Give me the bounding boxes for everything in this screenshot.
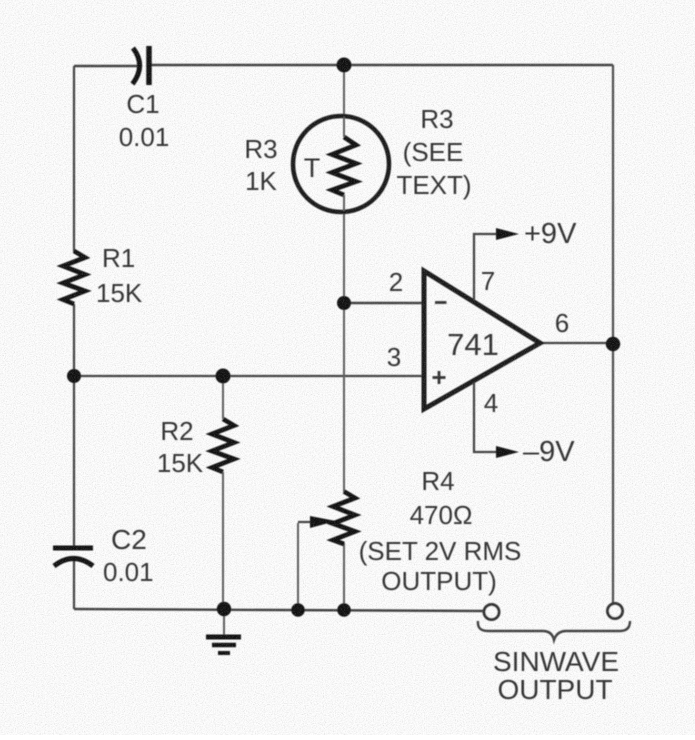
output terminal 1	[484, 605, 499, 620]
capacitor C1	[133, 46, 150, 85]
wire: output from op-amp apex to right rail	[540, 342, 613, 344]
wire: pin 4 to -9V supply	[474, 382, 497, 452]
wire: inverting input stub (pin 2)	[344, 302, 423, 304]
potentiometer R4	[333, 492, 355, 545]
wire: top rail right segment (C1 to right corner)	[150, 64, 613, 66]
wire: thermistor bottom down to R4	[343, 211, 345, 492]
wire: R4 wiper drop to bottom rail	[297, 523, 299, 610]
wire: pin 7 to +9V supply	[474, 234, 497, 300]
node: R4 bottom junction	[337, 603, 351, 617]
wire: right vertical rail	[612, 65, 614, 604]
plus sign at pin 3	[433, 376, 446, 379]
wire: left vertical rail middle (R1 to C2)	[73, 304, 75, 546]
ground	[206, 609, 241, 653]
wire: left vertical rail lower (C2 to bottom corner)	[73, 560, 75, 609]
node: top rail / thermistor junction	[337, 58, 352, 73]
brace under output terminals	[478, 621, 630, 640]
wire: left vertical rail upper (top to R1)	[73, 66, 75, 252]
-9V supply arrow	[496, 446, 519, 458]
op-amp U1 741	[424, 271, 540, 409]
node: ground junction	[217, 602, 231, 616]
node: left rail / mid wire junction	[67, 369, 81, 383]
+9V supply arrow	[496, 228, 519, 240]
wire: R4 bottom to bottom rail	[343, 543, 345, 610]
wire: thermistor branch from top rail	[343, 65, 345, 117]
capacitor C2	[53, 548, 93, 566]
wire: R2 bottom stub	[222, 472, 224, 610]
wiper arrow of R4	[298, 521, 312, 523]
minus sign at pin 2	[435, 301, 447, 304]
wire: mid horizontal (non-inverting input, pin 3)	[74, 375, 423, 377]
thermistor R3	[293, 116, 389, 212]
node: inverting input junction	[337, 296, 351, 310]
output terminal 2	[608, 604, 623, 619]
node: output junction	[606, 337, 620, 351]
resistor R2	[212, 419, 234, 472]
resistor R1	[63, 251, 85, 304]
wire: R2 top stub	[222, 376, 224, 419]
node: wiper bottom junction	[291, 603, 305, 617]
wire: bottom rail	[74, 609, 484, 611]
node: R2 top junction	[216, 369, 231, 384]
wire: top rail left segment (to C1)	[74, 65, 140, 67]
